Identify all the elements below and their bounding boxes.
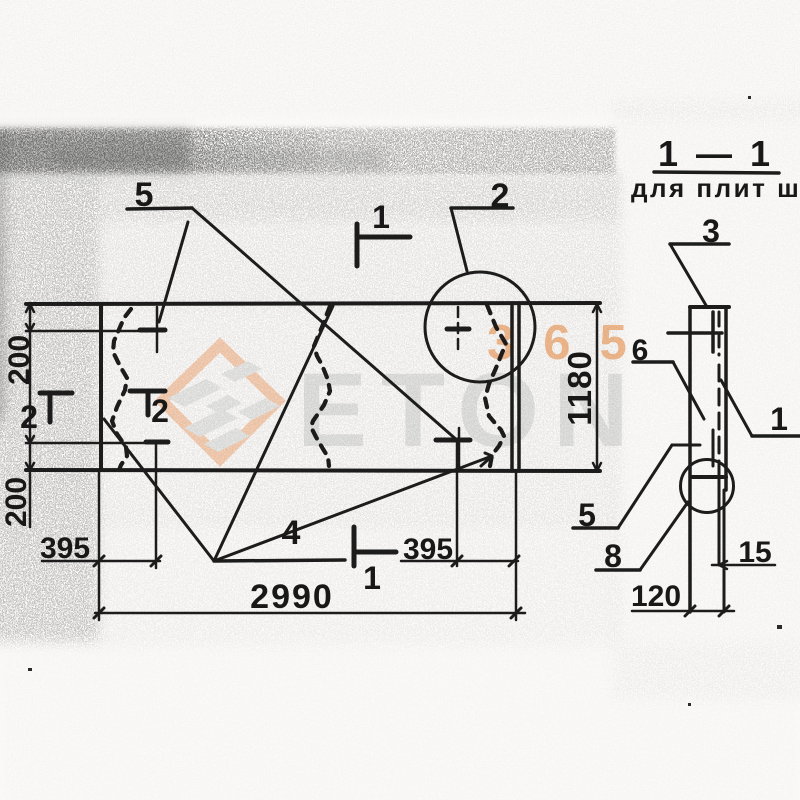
plate right edge inner (510, 303, 514, 471)
svg-text:395: 395 (40, 532, 90, 565)
svg-text:1: 1 (372, 199, 390, 235)
section view left edge (688, 307, 692, 612)
dim text 2990 (250, 578, 334, 616)
leader 5 underline (127, 208, 192, 209)
loop outline middle dashed (311, 306, 330, 466)
leader 3 (670, 244, 729, 307)
dim text 15 (738, 536, 771, 569)
leader 2 to circle (451, 208, 467, 271)
leader 5 to left loop (159, 222, 188, 322)
label 8 (604, 538, 622, 574)
loop mark right bottom (436, 428, 470, 469)
section view top edge (690, 305, 729, 309)
svg-text:120: 120 (631, 580, 681, 613)
dim 15 ext (723, 565, 726, 612)
dim 15 line (712, 561, 775, 569)
dim text 120 (631, 580, 681, 613)
dim 2990 ext right (515, 471, 518, 620)
dim 120 line (632, 606, 734, 616)
leader fan to middle loop (214, 306, 333, 561)
svg-text:2: 2 (151, 393, 169, 429)
svg-text:8: 8 (604, 538, 622, 574)
label 5 plan (135, 176, 154, 214)
title 1-1 (658, 133, 774, 174)
label 2 inner section mark (151, 393, 169, 429)
leader 6 (633, 362, 704, 419)
svg-text:1: 1 (770, 401, 788, 437)
label 1 bottom section mark (363, 560, 381, 596)
leader 4 arm (214, 560, 345, 561)
dim 395 right ext (456, 440, 459, 566)
loop outline left dashed (112, 309, 131, 470)
svg-text:1 — 1: 1 — 1 (658, 133, 774, 174)
dim text 1180 (561, 350, 598, 426)
svg-text:3: 3 (702, 213, 720, 249)
svg-text:2990: 2990 (250, 578, 334, 616)
label 1 right (770, 401, 788, 437)
label 3 (702, 213, 720, 249)
plate left edge (99, 304, 103, 470)
leader 5 right (573, 445, 700, 528)
loop mark left top (140, 307, 165, 352)
dim 395 left ext (155, 443, 158, 568)
svg-text:1180: 1180 (561, 350, 598, 426)
dim text 395 left (40, 532, 90, 565)
watermark logo diamond (162, 345, 278, 459)
svg-text:для плит ш: для плит ш (631, 173, 800, 203)
svg-text:5: 5 (135, 176, 154, 214)
svg-text:200: 200 (0, 477, 33, 527)
dim text 395 right (403, 533, 453, 566)
svg-text:2: 2 (20, 399, 38, 435)
svg-text:1: 1 (363, 560, 381, 596)
section mark 2 inner (130, 391, 165, 415)
watermark logo inner blocks (168, 361, 280, 452)
section view right edge lower (723, 490, 726, 612)
leader fan to right loop (214, 453, 492, 561)
label 4 (282, 514, 301, 552)
svg-text:2: 2 (491, 177, 510, 215)
leader 1 right (721, 380, 800, 436)
section view right edge upper (724, 307, 728, 490)
svg-text:5: 5 (578, 497, 596, 533)
stray specks (28, 96, 782, 706)
svg-text:6: 6 (632, 334, 649, 367)
detail circle 2 (425, 272, 535, 382)
section rebar line b (718, 312, 721, 565)
title 1-1 underline (654, 172, 779, 173)
label 2 top (491, 177, 510, 215)
loop mark right top cross (447, 307, 469, 352)
label 2 left section mark (20, 399, 38, 435)
dim left arrows (26, 304, 34, 470)
loop outline right dashed (485, 305, 506, 466)
dim left vertical line (29, 304, 32, 527)
dim ext row2 left (26, 442, 167, 445)
svg-text:15: 15 (738, 536, 771, 569)
dim 395 left line (42, 556, 161, 566)
svg-text:4: 4 (282, 514, 301, 552)
title for plates (631, 173, 800, 203)
dim ext row1 left (26, 330, 163, 333)
dim 2990 line (94, 608, 525, 618)
dim text 200 top (3, 335, 36, 385)
dim 395 right line (401, 556, 519, 566)
plate top edge (26, 303, 600, 304)
scan smudge band streaks (0, 130, 385, 420)
section embed line (668, 331, 722, 335)
dim 1180 line (593, 304, 601, 471)
svg-text:395: 395 (403, 533, 453, 566)
label 1 top section mark (372, 199, 390, 235)
loop mark left bottom (146, 440, 168, 445)
section detail circle (681, 460, 734, 513)
section joint line (692, 475, 726, 479)
label 6 (632, 334, 649, 367)
section mark 1 bottom (354, 527, 396, 566)
svg-text:200: 200 (3, 335, 36, 385)
plate right edge outer (517, 303, 521, 471)
leader 8 (596, 502, 688, 570)
dim text 200 bottom (0, 477, 33, 527)
section rebar line a (711, 312, 715, 466)
section mark 2 outer (40, 393, 72, 422)
label 5 right (578, 497, 596, 533)
dim 2990 ext left (98, 471, 101, 620)
section mark 1 top (357, 224, 410, 266)
leader fan to left loop (104, 419, 214, 561)
plate bottom edge (26, 470, 600, 471)
leader 2 underline (451, 206, 513, 210)
leader 5 to right loop (192, 208, 458, 441)
